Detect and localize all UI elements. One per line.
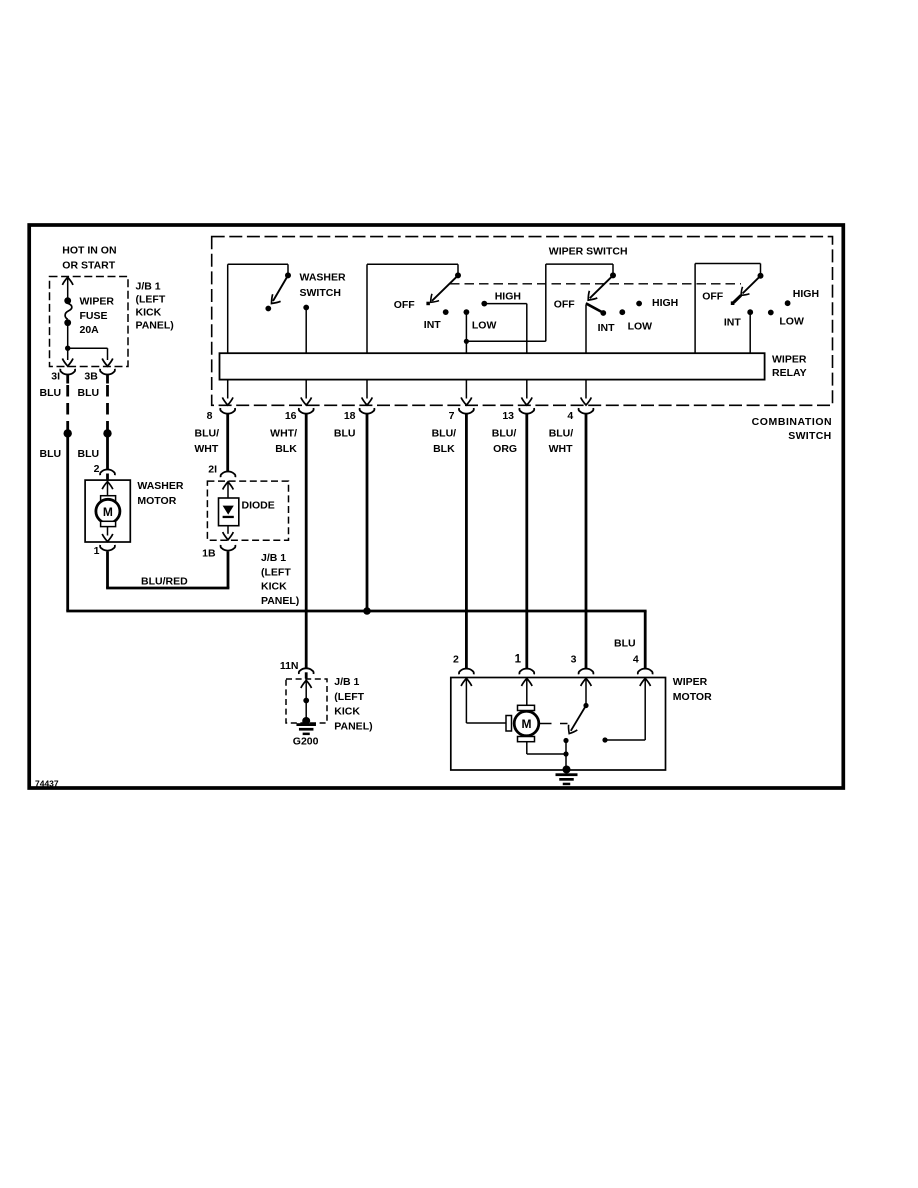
svg-text:HOT IN ON: HOT IN ON (62, 244, 116, 256)
svg-text:16: 16 (285, 410, 297, 422)
svg-text:PANEL): PANEL) (136, 320, 174, 332)
svg-text:1: 1 (515, 654, 522, 666)
svg-text:13: 13 (502, 410, 514, 422)
svg-text:LOW: LOW (472, 320, 497, 332)
svg-text:74437: 74437 (35, 779, 59, 789)
svg-text:BLU/RED: BLU/RED (141, 576, 188, 588)
svg-text:KICK: KICK (136, 307, 162, 319)
svg-text:OFF: OFF (554, 299, 576, 311)
svg-text:OFF: OFF (702, 291, 724, 303)
svg-text:SWITCH: SWITCH (788, 430, 831, 442)
svg-text:BLU: BLU (40, 448, 62, 460)
svg-text:20A: 20A (80, 324, 100, 336)
svg-text:HIGH: HIGH (793, 288, 819, 300)
svg-text:2: 2 (453, 654, 459, 666)
svg-text:BLU: BLU (40, 387, 62, 399)
svg-text:M: M (103, 505, 113, 519)
svg-text:J/B 1: J/B 1 (334, 676, 359, 688)
svg-text:BLU/: BLU/ (195, 427, 220, 439)
svg-text:OFF: OFF (394, 299, 416, 311)
svg-text:4: 4 (567, 410, 573, 422)
svg-text:INT: INT (598, 322, 616, 334)
svg-text:INT: INT (424, 319, 442, 331)
svg-text:INT: INT (724, 316, 742, 328)
svg-text:ORG: ORG (493, 443, 517, 455)
svg-text:PANEL): PANEL) (334, 720, 372, 732)
svg-text:2: 2 (94, 463, 100, 475)
svg-text:KICK: KICK (261, 581, 287, 593)
svg-text:G200: G200 (293, 736, 319, 748)
svg-text:BLU/: BLU/ (549, 427, 574, 439)
svg-text:1B: 1B (202, 548, 216, 560)
svg-text:3: 3 (571, 654, 577, 666)
svg-text:2I: 2I (208, 463, 217, 475)
svg-text:4: 4 (633, 654, 639, 666)
svg-text:MOTOR: MOTOR (137, 495, 176, 507)
svg-text:(LEFT: (LEFT (334, 691, 364, 703)
svg-text:SWITCH: SWITCH (300, 287, 341, 299)
svg-text:(LEFT: (LEFT (261, 566, 291, 578)
svg-text:J/B 1: J/B 1 (136, 281, 161, 293)
svg-text:WIPER: WIPER (772, 354, 807, 366)
svg-text:FUSE: FUSE (80, 310, 108, 322)
svg-text:LOW: LOW (779, 315, 804, 327)
svg-text:J/B 1: J/B 1 (261, 552, 286, 564)
svg-text:WHT: WHT (549, 443, 573, 455)
svg-text:18: 18 (344, 410, 356, 422)
svg-text:11N: 11N (280, 660, 299, 672)
svg-text:WIPER: WIPER (80, 295, 115, 307)
svg-text:1: 1 (94, 545, 100, 557)
svg-text:BLU/: BLU/ (432, 427, 457, 439)
svg-text:BLK: BLK (433, 443, 455, 455)
svg-text:BLK: BLK (275, 443, 297, 455)
svg-text:HIGH: HIGH (652, 297, 678, 309)
svg-text:PANEL): PANEL) (261, 595, 299, 607)
svg-text:KICK: KICK (334, 706, 360, 718)
svg-text:8: 8 (207, 410, 213, 422)
svg-text:BLU: BLU (78, 387, 100, 399)
svg-text:RELAY: RELAY (772, 367, 807, 379)
svg-text:WHT/: WHT/ (270, 427, 297, 439)
svg-text:WIPER SWITCH: WIPER SWITCH (549, 246, 628, 258)
svg-text:M: M (522, 717, 532, 731)
svg-text:WIPER: WIPER (673, 676, 708, 688)
svg-text:OR START: OR START (62, 259, 115, 271)
svg-text:HIGH: HIGH (495, 291, 521, 303)
svg-text:MOTOR: MOTOR (673, 691, 712, 703)
svg-text:3I: 3I (51, 370, 60, 382)
svg-text:WHT: WHT (194, 443, 218, 455)
svg-text:7: 7 (449, 410, 455, 422)
svg-text:(LEFT: (LEFT (136, 294, 166, 306)
svg-text:DIODE: DIODE (242, 500, 275, 512)
svg-text:WASHER: WASHER (137, 480, 184, 492)
svg-text:BLU: BLU (78, 448, 100, 460)
svg-text:LOW: LOW (628, 321, 653, 333)
svg-text:BLU/: BLU/ (492, 427, 517, 439)
svg-text:BLU: BLU (614, 638, 636, 650)
svg-text:COMBINATION: COMBINATION (752, 416, 833, 428)
svg-text:3B: 3B (84, 370, 98, 382)
svg-text:WASHER: WASHER (300, 271, 347, 283)
svg-text:BLU: BLU (334, 427, 356, 439)
